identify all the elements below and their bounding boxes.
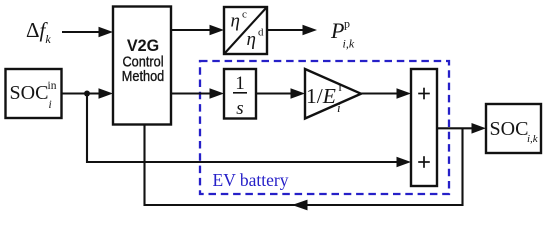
gain triangle 1/E_i^r — [305, 69, 361, 119]
svg-text:i: i — [337, 100, 341, 115]
svg-text:i,k: i,k — [527, 133, 539, 145]
wire gain to summer — [361, 88, 411, 99]
svg-text:p: p — [344, 17, 350, 31]
svg-text:SOC: SOC — [490, 118, 529, 140]
svg-text:Control: Control — [122, 54, 163, 70]
wire lower SOC branch to summer — [87, 94, 411, 168]
wire SOC_i^in to V2G input — [62, 88, 113, 99]
node junction dot on SOC line — [84, 91, 90, 97]
label Δf_k — [26, 18, 51, 46]
svg-text:1/E: 1/E — [306, 84, 336, 108]
wire summer output to SOC_{i,k} — [437, 123, 486, 134]
svg-text:SOC: SOC — [10, 82, 49, 104]
svg-text:in: in — [48, 80, 57, 92]
svg-text:r: r — [339, 79, 344, 94]
label EV battery — [213, 170, 289, 190]
svg-text:V2G: V2G — [127, 36, 159, 55]
dashed box EV battery boundary — [200, 61, 449, 194]
wire Δf_k to V2G input — [62, 27, 113, 38]
wire V2G to integrator — [171, 88, 224, 99]
svg-text:η: η — [231, 11, 240, 32]
svg-text:i: i — [49, 99, 52, 111]
svg-text:i,k: i,k — [343, 37, 355, 51]
svg-text:EV battery: EV battery — [213, 170, 289, 190]
label P_{i,k}^p — [330, 17, 355, 51]
block SOC_{i,k} — [486, 104, 541, 153]
block SOC_i^in — [6, 69, 62, 118]
wire integrator to gain — [256, 88, 305, 99]
svg-text:1: 1 — [235, 73, 245, 94]
block V2G Control Method U1 — [113, 7, 171, 125]
block integrator 1/s — [224, 69, 256, 119]
wire V2G to efficiency block — [171, 25, 224, 36]
svg-text:c: c — [242, 9, 247, 21]
wire feedback to V2G bottom — [145, 124, 463, 210]
svg-text:η: η — [247, 29, 256, 50]
block efficiency η^c / η^d — [224, 7, 267, 54]
svg-text:d: d — [258, 27, 264, 39]
svg-text:Method: Method — [122, 68, 165, 84]
wire efficiency to P output — [267, 25, 317, 36]
svg-text:s: s — [236, 98, 243, 119]
summer block — [411, 69, 437, 186]
